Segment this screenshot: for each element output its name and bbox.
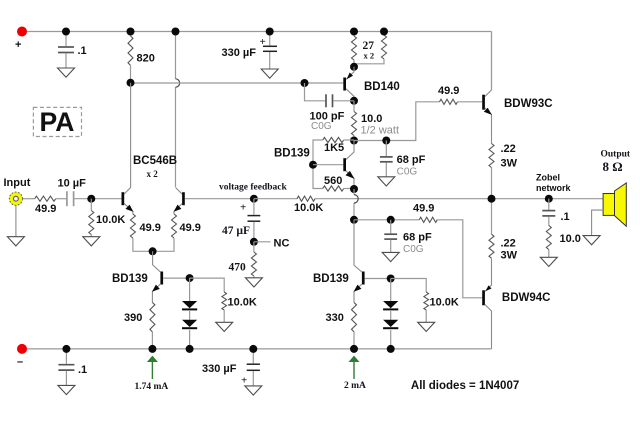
resistor .22 3W (lower) [489, 199, 494, 259]
svg-text:BDW94C: BDW94C [502, 292, 551, 304]
terminal V- red [17, 344, 27, 354]
capacitor .1 (Zobel) [542, 199, 555, 226]
ground (upper 68pF) [378, 177, 395, 186]
green arrow 1.74 mA [147, 356, 158, 379]
junction BD140 collector node [350, 97, 358, 105]
svg-text:Zobel: Zobel [536, 173, 560, 183]
transistor BD139 (Vbe multiplier) [343, 141, 354, 190]
svg-text:10.0: 10.0 [361, 113, 382, 125]
junction Vbe mult emitter / 560 node [350, 185, 358, 193]
svg-text:voltage feedback: voltage feedback [219, 183, 288, 193]
ground (lower 68pF) [382, 252, 399, 261]
diode D4 (right string) [383, 311, 398, 349]
svg-text:68 pF: 68 pF [403, 232, 432, 244]
label PA title box [33, 107, 81, 137]
junction top rail / 330uF [266, 28, 274, 36]
wire hop arc on collector line [176, 79, 180, 87]
junction top rail / right collector [172, 28, 180, 36]
junction 820 bottom node [127, 79, 135, 87]
transistor BDW93C (NPN output) [482, 90, 492, 144]
junction Vbe multiplier base [309, 161, 317, 169]
junction 390 / bottom rail [148, 345, 156, 353]
ground (bottom 330uF) [245, 386, 262, 395]
wire lower drive row to BDW94C base [354, 220, 482, 298]
wire bottom negative rail [22, 348, 492, 350]
transistor BC546B right (diff pair) [174, 188, 254, 215]
svg-text:x 2: x 2 [147, 169, 159, 179]
junction top rail / 820 [127, 28, 135, 36]
capacitor .1 (bottom rail bypass) [58, 349, 74, 386]
resistor 49.9 (input series) [23, 196, 67, 201]
svg-text:Input: Input [4, 177, 31, 189]
junction 68 pF top [382, 137, 390, 145]
resistor 10.0K (left bias) [190, 278, 227, 322]
junction 100pF left node [301, 79, 309, 87]
svg-text:49.9: 49.9 [140, 222, 161, 234]
junction right diodes / bottom rail [387, 345, 395, 353]
junction feedback node / 47uF [250, 195, 258, 203]
svg-text:49.9: 49.9 [180, 222, 201, 234]
capacitor 10 uF (input coupling) [67, 191, 122, 206]
wire top rail right drop to BDW93C collector [491, 32, 493, 91]
svg-text:BD139: BD139 [274, 148, 310, 160]
resistor 470 (feedback shunt) [251, 242, 256, 278]
svg-text:820: 820 [137, 53, 155, 65]
transistor BC546B left (diff pair) [122, 83, 134, 214]
capacitor 330 uF (bottom, electrolytic) [247, 349, 260, 386]
resistor 560 (Vbe multiplier) [313, 165, 354, 191]
transistor BD139 (left current source) [152, 272, 190, 303]
svg-text:.22: .22 [501, 143, 516, 155]
junction output node [488, 195, 496, 203]
capacitor 47 uF (feedback, electrolytic) [248, 199, 261, 242]
svg-text:68 pF: 68 pF [397, 154, 426, 166]
resistor 820 [128, 32, 133, 83]
wire top positive rail [22, 31, 492, 33]
capacitor 68 pF (upper) [380, 141, 393, 177]
svg-text:.22: .22 [501, 238, 516, 250]
diode D2 (left string) [182, 311, 197, 349]
svg-text:10 µF: 10 µF [58, 178, 87, 190]
svg-text:330 µF: 330 µF [222, 47, 257, 59]
transistor BDW94C (PNP output) [482, 259, 491, 349]
junction top rail / 27 left [350, 28, 358, 36]
terminal V+ red [17, 27, 27, 37]
junction left diodes / bottom rail [186, 345, 194, 353]
svg-text:49.9: 49.9 [438, 85, 459, 97]
transistor BD140 (PNP VAS top) [343, 67, 354, 101]
ground (470) [245, 278, 262, 287]
wire driver column with hop over feedback row [353, 189, 355, 220]
capacitor .1 (top rail bypass) [58, 32, 74, 69]
svg-text:560: 560 [324, 175, 342, 187]
svg-text:1/2 watt: 1/2 watt [361, 125, 400, 137]
capacitor 330 uF (top, electrolytic) [263, 32, 277, 70]
resistor 1K5 (Vbe multiplier) [313, 137, 354, 164]
junction diff pair tail [149, 247, 157, 255]
svg-text:NC: NC [274, 238, 290, 250]
junction bottom rail / 330uF [249, 345, 257, 353]
capacitor 68 pF (lower) [384, 220, 397, 253]
svg-text:C0G: C0G [403, 244, 424, 255]
svg-text:.1: .1 [561, 211, 570, 223]
green arrow 2 mA [349, 356, 360, 379]
wire diff tail to BD139 left collector [153, 251, 161, 272]
svg-text:10.0K: 10.0K [294, 202, 323, 214]
svg-text:1K5: 1K5 [324, 142, 344, 154]
svg-text:BD140: BD140 [364, 81, 400, 93]
svg-text:470: 470 [229, 262, 247, 274]
svg-text:BC546B: BC546B [133, 155, 177, 167]
svg-text:BD139: BD139 [112, 273, 148, 285]
speaker (8 ohm) [592, 183, 627, 236]
svg-text:.1: .1 [78, 45, 87, 57]
svg-text:+: + [240, 202, 246, 214]
svg-text:47 µF: 47 µF [222, 225, 250, 237]
svg-text:Output: Output [601, 149, 631, 159]
junction 27 bottom / BD140 emitter [350, 63, 358, 71]
wire node A row to 68pF and BDW93C base riser [354, 102, 440, 141]
junction 47uF bottom / NC [250, 238, 258, 246]
svg-text:3W: 3W [501, 250, 518, 262]
resistor 330 [352, 303, 357, 349]
svg-text:+: + [241, 375, 247, 387]
svg-text:10.0K: 10.0K [430, 297, 459, 309]
junction driver row node [350, 216, 358, 224]
svg-text:3W: 3W [501, 158, 518, 170]
wire drive column to BD139 right collector [354, 220, 362, 272]
junction top rail / 27 right [380, 28, 388, 36]
junction node A (VAS output top) [350, 137, 358, 145]
svg-text:330: 330 [326, 312, 344, 324]
svg-text:.1: .1 [78, 364, 87, 376]
resistor .22 3W (upper) [489, 144, 494, 199]
resistor 390 [150, 303, 155, 349]
resistor 49.9 (right emitter) [153, 214, 177, 251]
svg-text:+: + [260, 36, 266, 48]
svg-text:–: – [17, 356, 23, 368]
resistor 27 (left of pair) [352, 32, 357, 67]
ground (left 10.0K) [216, 322, 233, 331]
junction top rail / .1 [62, 28, 70, 36]
resistor 10.0 (VAS load) [352, 101, 357, 141]
junction 68pF lower top [387, 216, 395, 224]
svg-text:10.0K: 10.0K [96, 214, 125, 226]
resistor 49.9 (BDW93C base) [440, 99, 483, 104]
svg-text:10.0K: 10.0K [228, 297, 257, 309]
connector Input (yellow) [9, 192, 22, 237]
svg-text:network: network [536, 183, 572, 193]
svg-text:PA: PA [40, 107, 75, 137]
ground (speaker return) [583, 236, 600, 245]
ground (bottom .1 cap) [58, 385, 75, 394]
wire hop arc on driver column [354, 195, 358, 203]
resistor 27 (right of pair, paralleled) [355, 32, 387, 64]
ground (top .1 cap) [58, 68, 75, 77]
capacitor 100 pF (Miller) [305, 83, 355, 107]
svg-text:49.9: 49.9 [413, 203, 434, 215]
svg-text:1.74 mA: 1.74 mA [135, 382, 169, 392]
svg-text:49.9: 49.9 [35, 203, 56, 215]
wire BD140 base row y=83 [131, 82, 344, 84]
wire NC stub [254, 241, 271, 243]
resistor 49.9 (BDW94C base) [419, 217, 437, 222]
ground (input connector) [7, 237, 24, 246]
junction right diode top [387, 275, 395, 283]
resistor 10.0K (right bias) [391, 279, 429, 323]
svg-text:x 2: x 2 [364, 51, 375, 61]
resistor 10.0K (feedback) + output row wire [254, 196, 603, 201]
svg-text:C0G: C0G [397, 167, 418, 178]
ground (Zobel) [540, 257, 557, 266]
svg-text:All diodes = 1N4007: All diodes = 1N4007 [411, 380, 519, 392]
svg-text:C0G: C0G [311, 121, 332, 132]
resistor 10.0K (input bias) [89, 199, 94, 237]
svg-text:330 µF: 330 µF [202, 363, 237, 375]
svg-text:8 Ω: 8 Ω [603, 159, 623, 174]
svg-text:+: + [15, 39, 21, 51]
svg-text:BD139: BD139 [313, 273, 349, 285]
ground (right 10.0K) [418, 322, 435, 331]
junction input node / 10.0K [87, 195, 95, 203]
resistor 10.0 (Zobel) [546, 226, 551, 258]
transistor BD139 (right current source) [354, 272, 391, 303]
svg-text:390: 390 [124, 312, 142, 324]
svg-text:10.0: 10.0 [560, 233, 581, 245]
ground (input 10.0K) [83, 237, 100, 246]
diode D3 (right string) [383, 279, 398, 310]
diode D1 (left string) [182, 278, 197, 309]
ground (top 330uF) [261, 69, 278, 78]
junction left diode top [186, 274, 194, 282]
wire Vbe mult base [313, 164, 343, 166]
junction Zobel tap [545, 195, 553, 203]
resistor 49.9 (left emitter) [130, 214, 152, 251]
wire right BC546B collector to top rail (with hop over base row) [175, 32, 177, 188]
svg-text:BDW93C: BDW93C [504, 98, 553, 110]
junction 330 / bottom rail [350, 345, 358, 353]
junction bottom rail / .1 [62, 345, 70, 353]
svg-text:2 mA: 2 mA [344, 381, 366, 391]
